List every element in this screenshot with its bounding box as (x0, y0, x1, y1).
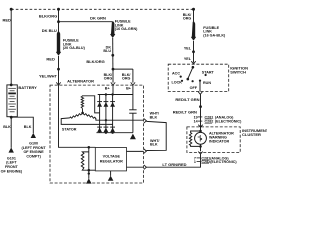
svg-text:OFF: OFF (190, 86, 198, 90)
battery (7, 84, 17, 117)
svg-text:BLK: BLK (150, 115, 158, 119)
alternator warning indicator lamp (195, 132, 207, 144)
svg-text:ORG: ORG (183, 17, 192, 21)
svg-text:BLK: BLK (24, 125, 32, 129)
svg-text:VOLTAGE: VOLTAGE (103, 155, 121, 159)
stator winding A (81, 96, 83, 108)
wire regulator I out (127, 166, 144, 168)
stator winding B (83, 113, 96, 119)
svg-text:YEL: YEL (184, 57, 192, 61)
connector entry B+ 1 (111, 82, 115, 85)
svg-text:CLUSTER: CLUSTER (242, 132, 261, 137)
node battery negative (10, 116, 13, 119)
ground regulator (110, 171, 112, 176)
wire coil ground stem (88, 170, 90, 179)
svg-text:BLK: BLK (150, 143, 158, 147)
wire LT GRN/RED (146, 160, 200, 167)
ground G101 (9, 147, 14, 152)
svg-text:RED: RED (3, 18, 12, 23)
wire BLK/ORG drop 1 (112, 69, 114, 83)
svg-text:1: 1 (194, 160, 196, 164)
svg-text:(ELECTRONIC): (ELECTRONIC) (215, 120, 242, 124)
connector alternator S terminal (144, 119, 147, 123)
wire RED/LT GRN to cluster (200, 94, 202, 131)
diode D4 (97, 126, 102, 128)
svg-text:DK BLU: DK BLU (42, 28, 57, 33)
svg-text:BLK/ORG: BLK/ORG (39, 14, 57, 19)
connector alternator A terminal (144, 149, 147, 153)
svg-text:ORG: ORG (104, 77, 113, 81)
wire BLK/ORG drop 2 (132, 69, 134, 83)
power bus dashed (hot at all times) (11, 8, 193, 10)
fusible link 16 GA-GRN (110, 22, 115, 39)
connector C281/C282 lower (194, 156, 238, 164)
svg-text:ORG: ORG (122, 77, 131, 81)
wire BLK to G101 (10, 117, 12, 148)
svg-text:BLK/ORG: BLK/ORG (86, 59, 104, 64)
wire DK GRN branch (59, 21, 113, 23)
wire BLK/ORG from bus (58, 9, 60, 32)
node lamp bottom (199, 145, 202, 148)
node B+ split (112, 68, 115, 71)
field coil L1 (88, 147, 90, 152)
wire RED battery feed (10, 9, 12, 85)
wire DK BLU (112, 38, 114, 69)
wire rectifier column 2 (105, 95, 107, 133)
svg-text:DK GRN: DK GRN (90, 16, 106, 21)
connector exit cluster (198, 152, 202, 155)
svg-text:ALTERNATOR: ALTERNATOR (67, 79, 94, 84)
connector entry B+ 2 (131, 82, 135, 85)
svg-text:STATOR: STATOR (62, 127, 77, 131)
switch lever (192, 66, 195, 69)
ground alternator case (130, 134, 136, 140)
contact RUN (199, 80, 201, 82)
node splice (192, 50, 195, 53)
wire B+ rail (98, 94, 133, 96)
svg-text:OF ENGINE): OF ENGINE) (1, 169, 23, 173)
connector alternator I indicator terminal (144, 165, 147, 169)
node A (bus / battery feed) (10, 8, 13, 11)
node field coil bottom (88, 169, 91, 172)
stator winding C (70, 113, 83, 118)
connector exit ignition switch (198, 92, 202, 95)
svg-text:BATTERY: BATTERY (18, 85, 37, 90)
wire regulator A out (127, 150, 144, 152)
diode D5 (104, 126, 109, 128)
wire phase A tap (82, 96, 99, 113)
svg-text:START: START (202, 70, 215, 74)
svg-text:COMPT): COMPT) (26, 155, 41, 159)
svg-text:YEL/WHT: YEL/WHT (39, 74, 58, 79)
capacitor C1 (132, 95, 134, 110)
connector C281/C282 upper (194, 115, 243, 123)
svg-text:(16 GA-GRN): (16 GA-GRN) (115, 27, 138, 31)
node stator center (81, 112, 84, 115)
resistor cluster (189, 131, 200, 146)
wire rectifier column 3 (112, 95, 114, 133)
node C (bus / ignition feed) (192, 8, 195, 11)
svg-text:RUN: RUN (203, 81, 211, 85)
contact LOCK (181, 80, 183, 82)
node DK GRN branch (57, 20, 60, 23)
svg-text:14: 14 (194, 120, 199, 124)
fusible link 20 GA-BLU (56, 32, 61, 56)
wire BLK to G100 (11, 117, 33, 133)
wire WHT/BLK jumper (146, 121, 166, 150)
svg-text:LOCK: LOCK (172, 81, 183, 85)
wire coil to regulator (89, 169, 96, 171)
svg-text:ACC: ACC (172, 72, 180, 76)
svg-text:BLU: BLU (103, 49, 111, 53)
connector entry cluster (198, 125, 202, 128)
svg-text:INDICATOR: INDICATOR (209, 140, 229, 144)
node splice (199, 105, 202, 108)
svg-text:YEL: YEL (184, 46, 192, 50)
wire ground rail (96, 132, 132, 134)
ignition switch box (168, 64, 229, 91)
svg-text:SWITCH: SWITCH (230, 69, 246, 74)
wire YEL to ignition switch (193, 41, 195, 63)
svg-text:(20 GA-BLU): (20 GA-BLU) (63, 46, 86, 50)
wire RUN output (199, 81, 201, 92)
wire phase B tap / stator terminal (96, 118, 144, 120)
diode D3 (110, 101, 115, 103)
fusible link 16 GA-BLK (191, 22, 196, 41)
svg-text:(ELECTRONIC): (ELECTRONIC) (210, 160, 237, 164)
svg-text:RED/LT GRN: RED/LT GRN (173, 110, 197, 115)
alternator box (50, 85, 144, 183)
wire cluster to LT GRN/RED (200, 154, 202, 160)
svg-text:B+: B+ (126, 86, 131, 90)
svg-text:B+: B+ (105, 86, 110, 90)
wire RED to alternator (58, 56, 60, 85)
diode D6 (110, 126, 115, 128)
diode D2 (104, 101, 109, 103)
contact START (205, 74, 207, 76)
svg-text:C282: C282 (205, 120, 214, 124)
node field coil top (88, 146, 91, 149)
svg-text:LT GRN/RED: LT GRN/RED (162, 162, 186, 167)
svg-text:(16 GA-BLK): (16 GA-BLK) (203, 33, 226, 37)
lamp battery glyph (199, 135, 201, 142)
ground G100 (31, 133, 36, 138)
diode D1 (97, 101, 102, 103)
wire B+ split bar (113, 68, 133, 70)
wire phase C tap (61, 118, 112, 125)
svg-text:RED/LT GRN: RED/LT GRN (175, 97, 199, 102)
svg-text:C282: C282 (201, 160, 210, 164)
node splice (57, 68, 60, 71)
svg-text:RED: RED (46, 56, 55, 61)
svg-text:BLK: BLK (3, 125, 11, 129)
instrument cluster box (187, 127, 240, 153)
node lamp top (199, 130, 202, 133)
ground field (86, 178, 92, 183)
connector entry alternator I terminal (56, 82, 60, 85)
contact OFF (192, 80, 194, 82)
wire BLK/ORG ignition feed (193, 9, 195, 22)
connector entry ignition switch (191, 61, 195, 64)
wire rectifier column 1 (99, 95, 101, 133)
node B (bus / fusible link feed) (57, 8, 60, 11)
wire YEL/WHT inside to regulator (59, 85, 96, 147)
node splice (111, 54, 114, 57)
svg-text:REGULATOR: REGULATOR (100, 160, 123, 164)
contact ACC (180, 76, 182, 78)
voltage regulator U1 (95, 148, 126, 171)
